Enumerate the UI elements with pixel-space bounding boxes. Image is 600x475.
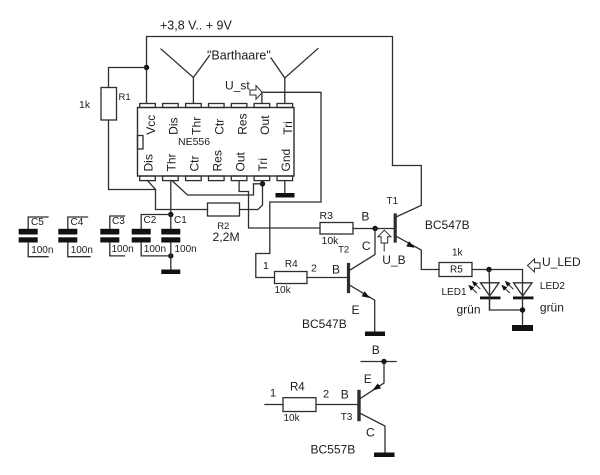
wire R1 top connection — [109, 68, 147, 88]
svg-text:C: C — [366, 426, 375, 440]
svg-text:C1: C1 — [174, 215, 187, 226]
svg-text:R4: R4 — [285, 259, 298, 270]
pin Dis top — [163, 104, 179, 108]
pin Res top — [231, 104, 247, 108]
svg-text:1: 1 — [263, 260, 269, 272]
svg-text:grün: grün — [540, 301, 564, 315]
svg-text:Ctr: Ctr — [188, 156, 202, 172]
svg-text:U_B: U_B — [382, 253, 405, 267]
node supply junction dot — [144, 65, 149, 70]
wire T2 collector to T1 base — [350, 229, 375, 270]
svg-text:Tri: Tri — [256, 158, 270, 172]
svg-text:grün: grün — [457, 303, 481, 317]
wire R3 to T1 base — [353, 228, 394, 230]
svg-text:T3: T3 — [341, 412, 353, 423]
svg-text:Out: Out — [233, 151, 247, 171]
svg-text:E: E — [352, 303, 360, 317]
svg-text:R4: R4 — [290, 382, 305, 394]
node "Barthaare" label — [207, 49, 271, 63]
wire T3 emitter from node B — [361, 362, 385, 399]
ground under LEDs — [512, 325, 533, 331]
wire Out bottom pin to R3 — [239, 181, 320, 228]
LED2 green — [514, 283, 533, 296]
svg-text:B: B — [372, 343, 380, 357]
pin Ctr top — [209, 104, 225, 108]
node U_st arrow — [250, 86, 262, 100]
node Tri junction dot — [260, 181, 265, 186]
svg-text:C5: C5 — [31, 217, 44, 228]
pin Tri bottom — [254, 176, 270, 181]
wire R4 lower to T3 base — [316, 404, 358, 406]
svg-text:B: B — [341, 388, 349, 402]
wire R2 right to Tri bottom pin — [240, 181, 263, 210]
svg-text:10k: 10k — [322, 235, 340, 247]
svg-text:1: 1 — [270, 388, 276, 400]
svg-text:NE556: NE556 — [178, 136, 210, 148]
wire T1 emitter — [397, 237, 439, 270]
svg-text:2: 2 — [311, 263, 317, 275]
resistor R4 upper — [275, 272, 308, 284]
svg-text:100n: 100n — [144, 244, 166, 255]
LED1 green — [481, 283, 500, 296]
svg-text:100n: 100n — [71, 245, 93, 256]
node U_B arrow — [378, 230, 391, 243]
node U_LED arrow — [528, 259, 541, 272]
svg-text:LED2: LED2 — [540, 281, 565, 292]
svg-text:2: 2 — [323, 388, 329, 400]
svg-text:U_st: U_st — [225, 79, 250, 93]
transistor Q2 T2 BC547B — [347, 265, 350, 292]
svg-text:2,2M: 2,2M — [213, 230, 240, 244]
svg-text:BC557B: BC557B — [311, 443, 356, 457]
svg-text:U_LED: U_LED — [542, 255, 581, 269]
wire Out top pin to arrow — [261, 93, 263, 104]
capacitor C4 — [68, 217, 88, 229]
svg-text:1k: 1k — [79, 99, 91, 111]
pin Dis bottom — [140, 176, 156, 181]
svg-text:1k: 1k — [452, 248, 464, 259]
svg-text:Thr: Thr — [190, 117, 204, 135]
wire U_st line to R4 pin1 — [256, 92, 321, 277]
svg-text:R5: R5 — [450, 265, 463, 276]
capacitor C5 — [28, 217, 48, 229]
svg-text:R3: R3 — [320, 210, 334, 222]
ground under Gnd pin — [284, 181, 286, 193]
node C1 bottom junction dot — [168, 253, 173, 258]
node C1 top junction dot — [168, 212, 173, 217]
svg-text:T1: T1 — [387, 196, 399, 207]
ground under T3 collector — [374, 453, 395, 458]
svg-text:C: C — [362, 239, 371, 253]
svg-text:R1: R1 — [119, 92, 131, 103]
svg-text:Tri: Tri — [281, 121, 295, 135]
wire T1 collector — [393, 166, 422, 217]
node +V supply label — [160, 19, 232, 33]
svg-text:B: B — [361, 210, 369, 224]
resistor R3 — [320, 223, 353, 235]
resistor R5 — [439, 263, 472, 277]
node U_st label — [225, 79, 250, 93]
pin Gnd bottom — [277, 176, 293, 181]
wire R4 to T2 base — [307, 277, 349, 279]
node B tap for T3 — [361, 361, 396, 363]
antenna whiskers right — [271, 58, 285, 104]
svg-text:Res: Res — [211, 150, 225, 171]
wire T3 collector — [361, 414, 386, 453]
svg-text:+3,8 V.. + 9V: +3,8 V.. + 9V — [160, 19, 232, 33]
antenna whiskers left "Barthaare" — [161, 49, 193, 104]
svg-text:LED1: LED1 — [442, 287, 467, 298]
transistor Q1 T1 BC547B — [394, 215, 397, 241]
pin Tri top — [277, 104, 293, 108]
svg-text:Thr: Thr — [165, 153, 179, 171]
pin Res bottom — [209, 176, 225, 181]
svg-text:100n: 100n — [31, 245, 53, 256]
svg-text:Vcc: Vcc — [144, 115, 158, 135]
pin Out bottom — [231, 176, 247, 181]
svg-text:C2: C2 — [144, 215, 157, 226]
ground under T2 emitter — [365, 332, 385, 337]
svg-text:B: B — [332, 263, 340, 277]
LED2 light arrows — [509, 285, 513, 289]
svg-text:"Barthaare": "Barthaare" — [207, 49, 271, 63]
svg-text:Dis: Dis — [167, 117, 181, 134]
wire Dis pin to R2 feed — [148, 181, 208, 210]
pin Thr bottom — [163, 176, 179, 181]
svg-text:Ctr: Ctr — [213, 119, 227, 135]
ground under C1 — [161, 270, 180, 275]
svg-text:10k: 10k — [284, 413, 301, 424]
resistor R4 lower — [283, 398, 316, 412]
svg-text:E: E — [364, 372, 372, 386]
svg-text:Dis: Dis — [142, 154, 156, 171]
LED1 light arrows — [476, 285, 480, 289]
pin Ctr bottom — [186, 176, 202, 181]
svg-text:BC547B: BC547B — [425, 218, 470, 232]
svg-text:C4: C4 — [71, 217, 84, 228]
wire top supply rail from Vcc pin up and across to T1 collector branch — [147, 37, 393, 166]
transistor Q3 T3 BC557B — [357, 392, 360, 420]
node T1 base dot — [372, 226, 377, 231]
svg-text:C3: C3 — [112, 216, 125, 227]
wire R5 to LEDs — [472, 270, 523, 283]
op-amp U1 IC NE556 body — [138, 108, 295, 177]
wire R1 bottom to Dis node — [109, 120, 156, 190]
wire T2 emitter — [350, 286, 374, 332]
capacitor C1 — [161, 229, 180, 235]
wire R4 lower pin1 — [265, 404, 283, 406]
wire Thr bottom pin down to C1 — [170, 181, 172, 229]
pin Thr top — [186, 104, 202, 108]
capacitor C3 — [110, 216, 125, 229]
wire Tri to Thr link — [172, 181, 263, 195]
svg-text:100n: 100n — [112, 244, 134, 255]
svg-text:BC547B: BC547B — [302, 317, 347, 331]
svg-text:Res: Res — [235, 113, 249, 134]
svg-text:Gnd: Gnd — [279, 149, 293, 172]
svg-text:10k: 10k — [275, 285, 292, 296]
capacitor C2 — [141, 215, 171, 229]
pin Vcc top — [140, 104, 156, 108]
svg-text:Out: Out — [258, 115, 272, 135]
resistor R1 — [101, 88, 117, 121]
svg-text:T2: T2 — [338, 245, 349, 256]
resistor R2 — [208, 203, 240, 216]
svg-text:100n: 100n — [175, 244, 197, 255]
pin Out top — [254, 104, 270, 108]
